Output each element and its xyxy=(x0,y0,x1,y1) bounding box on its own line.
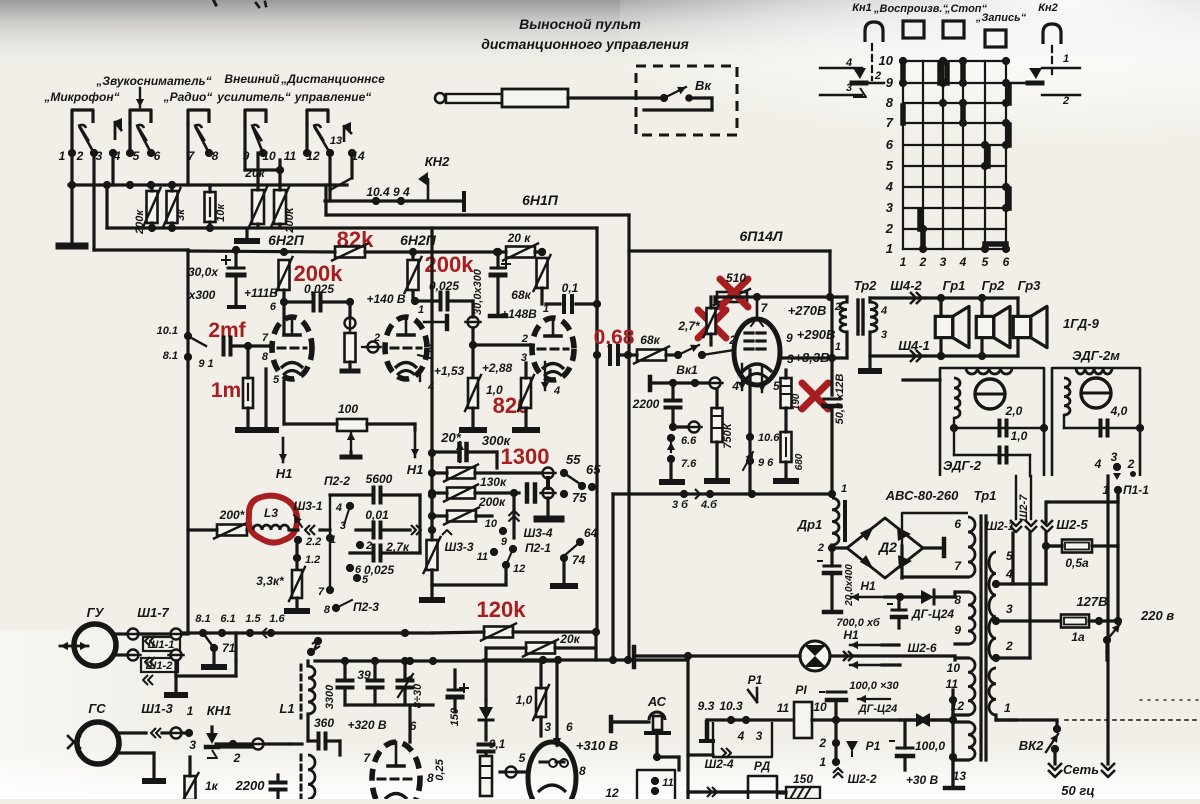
svg-text:4: 4 xyxy=(1094,457,1102,471)
vert x107 xyxy=(105,185,108,228)
chev power xyxy=(1010,520,1053,658)
label 2200 b xyxy=(235,778,266,793)
speaker Гр1 xyxy=(935,306,969,347)
svg-text:0,01: 0,01 xyxy=(365,508,389,522)
wire fuse05 xyxy=(1092,546,1118,621)
button Запись xyxy=(985,30,1006,47)
svg-text:АС: АС xyxy=(647,694,667,709)
label Ш3-1 xyxy=(293,499,322,527)
arrow V3 pin4 xyxy=(541,362,560,397)
svg-text:ЭДГ-2м: ЭДГ-2м xyxy=(1072,348,1120,363)
svg-text:7: 7 xyxy=(886,115,894,130)
scan fragment b xyxy=(214,1,216,5)
transformer Тр1 core xyxy=(981,516,986,760)
svg-text:5: 5 xyxy=(133,149,140,163)
ecap 100,0x30 xyxy=(820,680,899,720)
cap 30,0x300 input xyxy=(188,246,244,307)
wire 300k corner xyxy=(470,452,497,468)
svg-text:дистанционного управления: дистанционного управления xyxy=(481,36,689,52)
svg-text:Гр1: Гр1 xyxy=(943,278,966,293)
label АС xyxy=(647,694,667,709)
choke Др1 xyxy=(797,483,847,554)
label 50гц xyxy=(1061,783,1094,798)
relay P1 contact xyxy=(748,673,763,702)
red 82k xyxy=(337,227,374,252)
svg-text:П2-2: П2-2 xyxy=(324,474,350,488)
svg-text:3: 3 xyxy=(340,520,346,532)
cap 0,025 c xyxy=(350,546,420,561)
dash Кн2 xyxy=(1051,46,1053,78)
svg-text:8: 8 xyxy=(262,351,269,363)
svg-text:5: 5 xyxy=(773,379,780,393)
label V5 pins xyxy=(363,751,434,785)
label 20к input xyxy=(244,166,265,180)
wire J4 stems xyxy=(245,124,263,153)
svg-text:1: 1 xyxy=(900,255,907,269)
bus y252 xyxy=(188,248,546,256)
redX 190 xyxy=(802,383,828,409)
cap 2200 xyxy=(632,383,702,433)
label 6 pin xyxy=(410,719,417,733)
svg-text:55: 55 xyxy=(566,452,581,467)
wire V5 anode xyxy=(406,657,414,742)
svg-text:2: 2 xyxy=(817,542,824,554)
svg-text:Тр2: Тр2 xyxy=(854,278,878,293)
jack J2 Звукосниматель xyxy=(130,110,151,140)
svg-text:Н1: Н1 xyxy=(860,579,876,593)
cap 30,0x300 b xyxy=(472,248,510,316)
wire feed y250 xyxy=(94,248,188,251)
svg-text:7.6: 7.6 xyxy=(681,458,697,470)
motor pins xyxy=(1094,450,1136,480)
coil L1 xyxy=(308,666,315,714)
svg-text:200к: 200к xyxy=(134,209,146,235)
svg-text:Ш2-5: Ш2-5 xyxy=(1056,517,1088,532)
wire x597 to068 xyxy=(593,304,601,359)
label ВК2 xyxy=(1019,738,1044,753)
svg-text:9: 9 xyxy=(501,536,508,548)
svg-text:2,7к: 2,7к xyxy=(385,540,410,554)
dashed box remote xyxy=(636,66,737,135)
wire bottom xyxy=(688,787,786,797)
red 1300 xyxy=(501,444,550,469)
svg-text:2: 2 xyxy=(1062,95,1069,107)
relay coil Р1 xyxy=(794,683,812,738)
svg-text:8: 8 xyxy=(427,771,434,785)
resistor 200k anode2 xyxy=(405,257,422,293)
cap 0,68 xyxy=(610,346,618,364)
resistor 200к eq xyxy=(428,485,519,510)
svg-text:100,0 ×30: 100,0 ×30 xyxy=(849,680,899,692)
connector ГУ xyxy=(116,629,180,686)
svg-text:4: 4 xyxy=(553,385,560,397)
Тр1 winding 10-11 xyxy=(946,656,975,715)
wire pin4 down xyxy=(111,153,114,185)
label 6Н2П b xyxy=(400,232,437,248)
svg-text:3 б: 3 б xyxy=(672,499,689,511)
red 200k first xyxy=(294,261,344,286)
svg-text:9.3: 9.3 xyxy=(698,699,715,713)
resistor 20к anode xyxy=(503,244,538,261)
cap 360 xyxy=(308,714,340,749)
wire pin2 down xyxy=(70,153,73,243)
motor box ЭДГ-2м xyxy=(1052,368,1140,476)
switch Кн2 contacts xyxy=(1006,53,1080,107)
resistor 68к b xyxy=(618,347,669,364)
svg-text:х300: х300 xyxy=(188,288,216,302)
resistor 1,0 c xyxy=(533,660,549,736)
svg-text:Ш1-7: Ш1-7 xyxy=(137,605,169,620)
svg-text:5: 5 xyxy=(982,255,989,269)
wire H1 dn xyxy=(843,628,899,649)
svg-text:3300: 3300 xyxy=(324,684,336,709)
speaker Гр2 xyxy=(976,306,1010,347)
ecap 20,0x400 xyxy=(818,548,855,612)
svg-text:L3: L3 xyxy=(264,506,278,520)
svg-text:1.2: 1.2 xyxy=(305,554,320,566)
resistor 820 cath xyxy=(518,363,534,426)
resistor 20к J4 xyxy=(249,153,267,228)
svg-text:П2-1: П2-1 xyxy=(525,541,551,555)
label АВС-80-260 xyxy=(885,488,959,503)
svg-text:+30 В: +30 В xyxy=(906,773,939,787)
label 0,01 xyxy=(365,508,389,522)
red 0,68 xyxy=(594,326,635,349)
svg-text:6: 6 xyxy=(886,137,894,152)
relay contacts 2 1 xyxy=(818,720,880,769)
label Н1 b xyxy=(276,438,293,481)
tube V4 6П14Л xyxy=(734,297,780,385)
svg-text:ВК2: ВК2 xyxy=(1019,738,1044,753)
svg-text:9 1: 9 1 xyxy=(198,358,213,370)
switch 2mf in xyxy=(184,332,214,370)
svg-text:2: 2 xyxy=(818,736,826,750)
svg-text:1а: 1а xyxy=(1071,630,1085,644)
wire H1 up xyxy=(851,579,904,601)
ground 1,0 xyxy=(462,408,484,430)
wire 2,7к xyxy=(418,495,421,553)
svg-text:12: 12 xyxy=(513,563,525,575)
wire r2 stems xyxy=(170,185,173,228)
svg-text:6Н1П: 6Н1П xyxy=(522,192,559,208)
tube V3 6Н2П-3 xyxy=(532,318,574,380)
cap 8-30 xyxy=(398,661,425,708)
label 10.4 9.4 xyxy=(366,185,410,199)
svg-text:2200: 2200 xyxy=(235,778,266,793)
svg-text:1.6: 1.6 xyxy=(269,613,285,625)
label 10 relay xyxy=(813,700,827,714)
svg-text:64: 64 xyxy=(584,526,598,540)
svg-text:Ш1-2: Ш1-2 xyxy=(146,660,173,672)
svg-text:П1-1: П1-1 xyxy=(1123,483,1149,497)
svg-text:11: 11 xyxy=(284,149,297,163)
wire J5 stems xyxy=(307,124,330,153)
bus y215 xyxy=(326,213,629,216)
svg-text:„Воспроизв.“: „Воспроизв.“ xyxy=(873,3,948,15)
Тр1 winding 12-13 xyxy=(949,690,975,783)
svg-text:50 гц: 50 гц xyxy=(1061,783,1094,798)
arrows V4 heaters xyxy=(738,364,766,392)
svg-text:1: 1 xyxy=(1004,701,1011,715)
svg-text:1: 1 xyxy=(330,534,336,546)
bus y228 xyxy=(107,224,597,232)
svg-text:74: 74 xyxy=(572,553,586,567)
svg-text:7: 7 xyxy=(262,332,269,344)
label 6Н1П xyxy=(522,192,559,208)
wire x514 xyxy=(509,493,520,538)
wire Вк1 row xyxy=(650,363,723,390)
ground 3,3к xyxy=(287,608,307,614)
taps right xyxy=(992,580,1061,720)
label 10 9 11 12 xyxy=(477,518,526,575)
svg-text:КН1: КН1 xyxy=(207,703,232,718)
svg-text:3: 3 xyxy=(1111,450,1118,464)
svg-text:9 6: 9 6 xyxy=(758,457,774,469)
label 10.1 8.1 xyxy=(157,325,178,362)
bus y185 xyxy=(68,181,347,189)
svg-text:3,3к*: 3,3к* xyxy=(256,574,285,588)
wire grid V3 xyxy=(469,341,530,378)
wire plug xyxy=(568,96,664,99)
dots 36 46 xyxy=(613,489,830,511)
svg-text:6Н2П: 6Н2П xyxy=(268,232,305,248)
label Выносной пульт xyxy=(481,16,689,52)
svg-text:Ш3-3: Ш3-3 xyxy=(444,540,473,554)
svg-text:РД: РД xyxy=(754,759,771,773)
svg-text:4: 4 xyxy=(845,57,852,69)
svg-text:6.1: 6.1 xyxy=(220,613,235,625)
wire motor link xyxy=(903,352,945,380)
svg-text:ЭДГ-2: ЭДГ-2 xyxy=(943,458,982,473)
svg-text:6П14Л: 6П14Л xyxy=(739,228,782,244)
svg-text:Выносной пульт: Выносной пульт xyxy=(519,16,641,32)
erase mark xyxy=(307,637,322,656)
svg-text:Внешний: Внешний xyxy=(224,72,280,86)
bridge Д2 xyxy=(847,518,923,578)
wire Др1 to Д2 xyxy=(828,544,847,552)
svg-text:71: 71 xyxy=(222,641,236,655)
svg-text:Тр1: Тр1 xyxy=(974,488,997,503)
wire J2 stems xyxy=(130,124,151,153)
wire 12 xyxy=(900,700,968,784)
cap 5600 xyxy=(330,488,420,503)
wire cathode V1 xyxy=(266,369,280,427)
label 360 xyxy=(314,716,334,730)
wire V4 pin3 xyxy=(780,354,836,362)
labels V4 pins xyxy=(728,301,794,393)
svg-text:3к: 3к xyxy=(175,208,187,221)
vert x326 xyxy=(324,185,327,215)
svg-text:1: 1 xyxy=(187,704,194,718)
switch КН1 xyxy=(189,703,231,758)
resistor 200k anode1 xyxy=(276,257,293,293)
svg-text:Д2: Д2 xyxy=(878,539,897,555)
cap 2200 b xyxy=(271,775,286,799)
svg-text:0,025: 0,025 xyxy=(364,563,394,577)
svg-text:0,5а: 0,5а xyxy=(1065,556,1089,570)
dash Кн1 xyxy=(871,44,873,80)
ecap 150 xyxy=(448,670,468,712)
svg-text:1,0: 1,0 xyxy=(1011,429,1028,443)
label +140В xyxy=(366,292,405,306)
circ 55 xyxy=(541,452,602,491)
cap 39a xyxy=(338,661,353,705)
switch Вк xyxy=(644,78,712,110)
label Тр2 xyxy=(854,278,878,293)
svg-text:ГУ: ГУ xyxy=(87,605,105,620)
tube V6 6П14Л-2 xyxy=(528,742,576,804)
svg-text:1: 1 xyxy=(841,483,847,495)
svg-text:Ш2-4: Ш2-4 xyxy=(704,757,733,771)
svg-text:„Радио“: „Радио“ xyxy=(163,90,213,104)
dashed core L1 xyxy=(300,665,303,718)
label Звукосниматель xyxy=(95,74,211,88)
ground 820 xyxy=(515,427,537,433)
cap 39b xyxy=(368,661,383,705)
switch П2-2 col xyxy=(318,495,372,616)
Тр1 right winding 1 xyxy=(989,668,1011,715)
jack J3 Радио xyxy=(188,110,209,140)
diode Д xyxy=(479,700,493,740)
resistor 750К xyxy=(712,390,735,478)
resistor 1,0 cath xyxy=(465,375,503,411)
svg-text:АВС-80-260: АВС-80-260 xyxy=(885,488,959,503)
svg-text:2: 2 xyxy=(1005,639,1013,653)
label Ш3-3 xyxy=(442,530,474,554)
head ГУ xyxy=(60,605,116,666)
wire ВК2 xyxy=(996,720,1061,764)
red 120k xyxy=(477,597,527,622)
wire 190 x xyxy=(822,404,832,410)
labels 8.1 6.1 1.5 1.6 xyxy=(195,613,285,625)
svg-text:9: 9 xyxy=(886,75,894,90)
svg-text:3: 3 xyxy=(940,255,947,269)
pot wiper xyxy=(362,342,381,353)
svg-text:+1,53: +1,53 xyxy=(434,364,465,378)
chev net2 xyxy=(1101,763,1115,777)
wiper V6 xyxy=(500,767,528,778)
svg-text:20к: 20к xyxy=(559,632,580,646)
svg-text:68к: 68к xyxy=(640,333,660,347)
svg-text:4: 4 xyxy=(959,255,967,269)
button Кн2 xyxy=(1043,24,1061,44)
wire 20к down xyxy=(486,648,526,700)
svg-text:2: 2 xyxy=(365,540,372,552)
svg-text:2: 2 xyxy=(919,255,927,269)
svg-text:5: 5 xyxy=(519,751,526,765)
svg-text:Р1: Р1 xyxy=(748,673,763,687)
svg-text:Ш2-2: Ш2-2 xyxy=(847,772,876,786)
Тр1 winding 8-9 xyxy=(954,592,975,644)
cap 2,0 xyxy=(950,418,1048,436)
svg-text:Сеть: Сеть xyxy=(1063,762,1099,777)
svg-text:6.6: 6.6 xyxy=(681,435,697,447)
svg-text:Ш2-7: Ш2-7 xyxy=(1018,494,1030,522)
cap 0,025 b xyxy=(415,293,473,310)
label 20к c xyxy=(559,632,580,646)
wire x432 xyxy=(428,228,436,534)
ground 2,7к xyxy=(422,597,442,603)
svg-text:13: 13 xyxy=(953,769,967,783)
resistor 510 xyxy=(714,289,750,305)
redX 510 xyxy=(720,279,748,307)
svg-text:8.1: 8.1 xyxy=(163,350,178,362)
svg-text:+290В: +290В xyxy=(797,327,836,342)
resistor 120k xyxy=(481,624,516,641)
jack J1 Микрофон xyxy=(72,110,93,140)
label Радио xyxy=(163,90,213,104)
tube V5 xyxy=(372,742,420,804)
jack J5 Дистанционное управление xyxy=(307,110,328,140)
svg-text:+2,88: +2,88 xyxy=(482,361,513,375)
svg-text:1ГД-9: 1ГД-9 xyxy=(1063,316,1100,331)
label 6П14Л xyxy=(739,228,782,244)
svg-text:130к: 130к xyxy=(480,475,507,489)
wire cath 10.6 xyxy=(743,370,780,494)
wire ГУ bot xyxy=(169,633,237,676)
wire V2 anode xyxy=(411,252,424,316)
svg-text:100: 100 xyxy=(338,402,358,416)
svg-text:1.5: 1.5 xyxy=(245,613,261,625)
svg-text:„Дистанционнсе: „Дистанционнсе xyxy=(280,72,385,86)
ecap 100,0 xyxy=(890,720,945,770)
svg-text:0,25: 0,25 xyxy=(434,758,446,780)
resistor 2,7к xyxy=(385,530,440,597)
circles V6 xyxy=(549,759,568,767)
svg-text:127В: 127В xyxy=(1076,594,1107,609)
transformer Тр2 xyxy=(834,300,887,353)
arrow Ш2-6 xyxy=(850,661,900,669)
svg-text:Н1: Н1 xyxy=(276,466,293,481)
wire АС xyxy=(611,717,679,770)
svg-text:10: 10 xyxy=(485,518,498,530)
svg-text:20 к: 20 к xyxy=(507,231,532,245)
resistor 68k V3 xyxy=(534,248,551,304)
label +2,88 xyxy=(482,361,513,375)
red 2mf xyxy=(208,319,246,342)
svg-text:2: 2 xyxy=(834,301,841,313)
circ 75 xyxy=(541,488,588,506)
relay box low xyxy=(605,770,675,800)
label Дистанционное управление xyxy=(280,72,385,104)
label 20к anode xyxy=(507,231,532,245)
wire 6.6 7.6 xyxy=(667,434,697,478)
wire Тр2 sec bot xyxy=(870,332,925,368)
vert x629 long xyxy=(627,215,630,660)
svg-text:8: 8 xyxy=(579,764,586,778)
wire net vert xyxy=(1106,476,1109,764)
svg-text:3: 3 xyxy=(189,738,196,752)
cap 4,0 xyxy=(1064,415,1144,436)
pot interstage xyxy=(342,298,358,371)
ecap 700 xyxy=(888,597,906,628)
svg-text:6: 6 xyxy=(566,720,573,734)
svg-text:2: 2 xyxy=(1127,457,1135,471)
svg-text:1к: 1к xyxy=(205,779,219,793)
svg-text:4: 4 xyxy=(737,729,745,743)
label 5600 xyxy=(366,472,393,486)
resistor eq3 xyxy=(428,508,492,525)
wire eq col xyxy=(432,565,506,585)
svg-text:10.1: 10.1 xyxy=(157,325,178,337)
wire 120k xyxy=(432,628,600,636)
wire 1m xyxy=(244,342,252,427)
label 64 74 xyxy=(560,526,598,582)
label 39 xyxy=(357,668,371,682)
svg-text:8: 8 xyxy=(324,604,331,616)
svg-text:4: 4 xyxy=(880,305,887,317)
svg-text:2,7*: 2,7* xyxy=(677,319,701,333)
